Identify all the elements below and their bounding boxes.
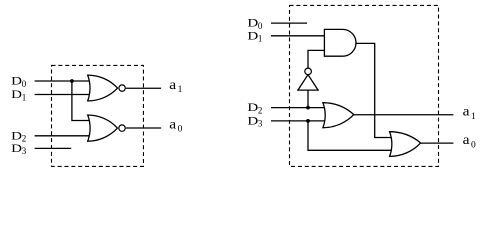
wire AND bottom input from inverter bubble [308,50,326,68]
svg-text:0: 0 [471,140,476,150]
svg-text:1: 1 [178,85,183,95]
dashed box (right circuit) [290,5,439,166]
svg-text:a: a [463,104,470,119]
svg-text:3: 3 [22,146,27,156]
inverter triangle [298,75,318,90]
svg-text:D: D [11,130,22,142]
svg-text:1: 1 [258,34,263,44]
OR gate 2 (a0, right) [390,132,421,157]
wire inverter input from D2 [307,90,309,108]
svg-text:1: 1 [471,112,476,122]
wire D3 stub (left) [35,147,72,149]
junction dot on D2 (right) [306,106,310,110]
svg-text:0: 0 [258,21,263,31]
AND gate [324,29,356,56]
svg-text:D: D [11,89,22,101]
NOR gate 1 (a1) body [88,75,118,101]
dashed box (left circuit) [52,65,144,166]
wire D1 input to AND (right) [271,35,326,37]
svg-text:a: a [169,77,176,92]
junction dot on D0 (left) [70,79,74,83]
svg-text:1: 1 [22,92,27,102]
wire AND output down to OR2 top input [355,43,392,137]
wire a0 output (right) [420,142,453,144]
svg-text:0: 0 [22,79,27,89]
wire output a0 (left) [126,127,161,129]
OR gate 1 (a1, right) [323,103,354,128]
wire branch from D0 junction down to NOR2 top input [72,81,91,121]
NOR gate 1 bubble [119,85,125,91]
wire a1 output (right) [354,114,454,116]
wire D0 input (left) [35,80,91,82]
NOR gate 2 (a0) body [88,115,118,141]
svg-text:2: 2 [22,134,27,144]
svg-text:0: 0 [178,125,183,135]
wire output a1 (left) [126,87,161,89]
wire branch from D3 junction down to OR2 bottom input [308,121,392,150]
svg-text:D: D [11,76,22,88]
wire D2 input (left) [35,135,91,137]
svg-text:D: D [247,30,258,42]
svg-text:D: D [11,143,22,155]
svg-text:3: 3 [258,119,263,129]
svg-text:a: a [169,117,176,132]
svg-text:a: a [463,132,470,147]
svg-text:D: D [247,18,258,30]
wire D2 input (right) [271,107,327,109]
junction dot on D3 (right) [306,119,310,123]
wire D3 input (right) [271,120,327,122]
svg-text:D: D [247,115,258,127]
NOR gate 2 bubble [119,125,125,131]
svg-text:2: 2 [258,105,263,115]
wire D1 input (left) [35,94,91,96]
inverter bubble [305,68,312,75]
wire D0 stub (right) [271,22,307,24]
svg-text:D: D [247,102,258,114]
